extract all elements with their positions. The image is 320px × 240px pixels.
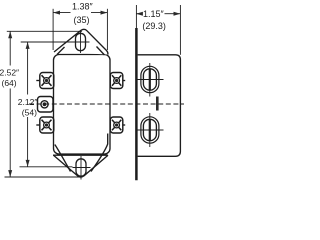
side view mounting plate edge (135, 28, 138, 180)
side slot hole upper (inner) (143, 69, 156, 90)
bottom hole horizontal centerline (73, 167, 91, 169)
svg-text:(54): (54) (22, 107, 37, 117)
terminal T1 (top left tab) (36, 73, 54, 89)
terminal T5 (bottom right tab) (110, 117, 125, 133)
side slot hole lower (outer) (141, 117, 159, 143)
dim 2.12 bottom extension line (20, 166, 73, 168)
bottom hole vertical centerline (80, 156, 82, 180)
dim 1.38 right extension line (106, 9, 108, 50)
terminal T2 (middle left ground tab) (38, 97, 54, 113)
dim 2.52 top extension line (7, 30, 82, 32)
dim 2.52 dimension line with arrows (8, 31, 12, 177)
dim 1.38 dimension line right segment with arrow (91, 11, 107, 15)
bracket bottom-left inner bend (55, 145, 71, 172)
dim 2.12 dimension line with arrows (26, 42, 30, 167)
bracket top-left inner bend (57, 47, 65, 55)
svg-text:1.15″: 1.15″ (143, 9, 165, 19)
side small slot between holes (156, 97, 159, 111)
bracket bottom edge line (53, 154, 108, 156)
top mounting hole (oblong) (76, 33, 86, 50)
dim 2.52 bottom extension line (5, 176, 81, 178)
dim 1.38 dimension line left segment with arrow (53, 11, 70, 15)
top hole horizontal centerline (72, 41, 90, 43)
side slot hole lower (inner) (143, 119, 156, 140)
side view mounting plate extension line (135, 5, 137, 29)
dim 2.12 top extension line (21, 41, 72, 43)
side slot lower vertical centerline (149, 113, 151, 147)
filter can body (front view) (54, 55, 111, 155)
bracket top-right inner bend (97, 47, 105, 56)
bracket bottom flange (54, 155, 109, 177)
svg-text:2.12″: 2.12″ (18, 97, 38, 107)
bracket bottom-right inner bend (91, 134, 108, 172)
svg-text:(35): (35) (74, 15, 90, 25)
svg-text:2.52″: 2.52″ (0, 68, 19, 78)
side slot upper vertical centerline (149, 63, 151, 97)
side view right extension line (179, 5, 181, 55)
svg-text:1.38″: 1.38″ (72, 2, 94, 12)
dim 1.15 dimension line with arrows (136, 12, 180, 16)
side slot upper horizontal centerline (138, 79, 164, 81)
bracket top flange (54, 29, 108, 54)
top hole vertical centerline (80, 31, 82, 54)
dim 1.38 left extension line (52, 9, 54, 50)
svg-text:(29.3): (29.3) (142, 21, 166, 31)
side slot lower horizontal centerline (138, 129, 164, 131)
side view body (138, 55, 181, 157)
svg-text:(64): (64) (2, 78, 17, 88)
side slot hole upper (outer) (141, 66, 159, 92)
terminal T3 (bottom left tab) (36, 117, 54, 133)
horizontal dashed centerline (29, 103, 184, 105)
terminal T4 (top right tab) (110, 73, 125, 89)
bottom mounting hole (oblong) (76, 159, 86, 176)
